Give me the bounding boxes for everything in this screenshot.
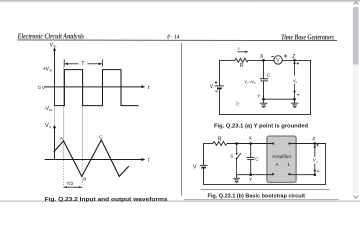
right wire <box>310 60 312 115</box>
bottom rail <box>219 113 311 115</box>
lower time axis <box>45 159 143 161</box>
top wire: left to R <box>204 143 214 145</box>
wire: top left segment <box>219 59 235 61</box>
Vo axis (vertical) <box>54 127 56 160</box>
svg-text:I: I <box>238 46 239 51</box>
capacitor C branch upper wire <box>263 60 265 78</box>
resistor R2 zigzag <box>213 142 227 146</box>
scrollbar thumb <box>353 7 359 65</box>
battery V short plate <box>217 87 222 89</box>
amplifier box U1 <box>267 136 296 182</box>
output branch vo (b) upper <box>314 145 316 157</box>
top window shading band <box>0 0 360 3</box>
switch node on top wire <box>235 142 238 145</box>
Vin axis (vertical) <box>54 49 56 106</box>
battery V long plate <box>215 85 224 87</box>
node Z (b) <box>314 142 317 145</box>
rule above caption (b) <box>201 189 330 191</box>
top wire: R to amp pin <box>227 143 273 145</box>
node Z <box>293 59 296 62</box>
svg-text:A: A <box>60 136 63 141</box>
wire: R to X <box>248 59 274 61</box>
rule below caption (b) <box>184 199 339 201</box>
svg-text:o: o <box>49 125 51 129</box>
ground at Z bottom <box>294 99 296 103</box>
bottom window shading band <box>0 200 360 203</box>
scrollbar up arrow <box>354 2 359 5</box>
output branch vo (b) lower <box>314 163 316 174</box>
left wire (b) lower <box>203 168 205 185</box>
0V time axis <box>45 86 144 88</box>
battery V (b) short plate <box>201 167 206 169</box>
node Y (b) <box>249 173 252 176</box>
svg-text:Z: Z <box>292 54 295 60</box>
svg-text:Fig. Q.23.1 (a) Y point is gro: Fig. Q.23.1 (a) Y point is grounded <box>214 124 309 130</box>
right wire (b) <box>325 143 327 185</box>
node vo bottom (b) <box>314 173 317 176</box>
header rule <box>18 39 338 42</box>
node Y <box>262 98 265 101</box>
Y-rail: amp out to vo node <box>289 174 314 176</box>
svg-text:in: in <box>54 45 57 49</box>
ground at Y <box>263 99 265 103</box>
switch lower wire to Y-rail <box>236 159 238 175</box>
left wire (b) upper <box>203 143 205 165</box>
wire: source to Z to corner <box>282 59 311 61</box>
output branch vo upper <box>294 61 296 76</box>
output branch vo lower <box>294 84 296 99</box>
T/2 annotation <box>64 186 81 188</box>
svg-text:Fig. Q.23.2 Input and output w: Fig. Q.23.2 Input and output waveforms <box>45 197 168 202</box>
left wire lower <box>219 88 221 114</box>
battery V (b) long plate <box>200 164 208 166</box>
svg-text:Amplifier: Amplifier <box>272 154 292 159</box>
bottom rail (b) <box>203 183 326 185</box>
node X <box>262 59 265 62</box>
svg-text:B: B <box>83 177 86 182</box>
svg-text:0 V: 0 V <box>38 85 46 91</box>
svg-text:R: R <box>218 137 222 143</box>
wire Y to Z-bottom <box>264 98 295 100</box>
minus mark vo <box>297 94 299 96</box>
stray cursor mark <box>236 100 240 106</box>
node X (b) <box>249 142 252 145</box>
resistor R1 zigzag <box>235 58 248 62</box>
svg-text:1: 1 <box>287 162 290 168</box>
svg-text:Z: Z <box>312 136 315 142</box>
period T annotation ticks <box>63 59 65 66</box>
polarity marks of source <box>271 55 274 57</box>
column divider <box>181 43 183 196</box>
period T arrow line <box>65 63 79 65</box>
top wire: amp out to right corner <box>289 143 326 145</box>
switch S stub <box>236 144 238 154</box>
svg-text:R: R <box>240 63 244 69</box>
projection line x=54 (axis extension) <box>54 107 56 158</box>
plus mark vo (b) <box>316 144 319 146</box>
source Vs circle <box>274 56 282 64</box>
svg-text:Fig. Q.23.1 (b) Basic bootstra: Fig. Q.23.1 (b) Basic bootstrap circuit <box>208 193 306 199</box>
svg-text:in: in <box>50 108 53 112</box>
triangle output waveform <box>54 140 129 177</box>
capacitor C (b) plates <box>247 156 255 158</box>
battery labels <box>215 81 218 83</box>
Y-rail: switch to amp pin <box>237 174 274 176</box>
square wave <box>54 70 138 106</box>
switch S contacts and blade <box>236 153 238 155</box>
projection line A x=63.5 <box>63 66 65 160</box>
capacitor C (b) upper wire <box>250 144 252 158</box>
ground under switch <box>236 175 238 178</box>
svg-text:T/2: T/2 <box>67 181 74 187</box>
capacitor C plates <box>260 78 269 80</box>
svg-text:+V: +V <box>43 66 50 72</box>
amplifier pins <box>272 143 274 145</box>
capacitor C branch lower wire <box>263 81 265 99</box>
svg-text:8 - 14: 8 - 14 <box>167 34 179 40</box>
minus mark vo (b) <box>317 170 319 172</box>
current I arrow <box>238 51 247 53</box>
node Z bottom <box>293 98 296 101</box>
projection line B x=82.4 <box>82 70 84 160</box>
capacitor C (b) lower wire <box>250 160 252 175</box>
scrollbar down arrow <box>353 195 358 198</box>
svg-text:S: S <box>230 153 233 158</box>
svg-text:in: in <box>50 69 53 73</box>
left wire upper <box>219 60 221 86</box>
scrollbar track <box>353 7 359 194</box>
plus mark vo <box>297 62 300 64</box>
